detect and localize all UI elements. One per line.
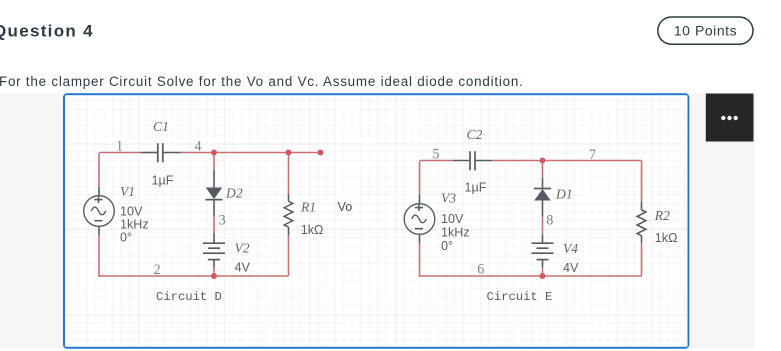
svg-text:D2: D2 — [225, 186, 243, 201]
svg-text:1µF: 1µF — [152, 173, 174, 187]
svg-text:D1: D1 — [555, 186, 573, 201]
svg-text:3: 3 — [219, 213, 226, 229]
svg-text:Circuit D: Circuit D — [156, 290, 222, 304]
svg-text:1µF: 1µF — [465, 181, 487, 195]
svg-text:V4: V4 — [563, 241, 578, 256]
svg-text:2: 2 — [154, 262, 161, 278]
svg-text:4V: 4V — [235, 261, 251, 275]
svg-text:1kHz: 1kHz — [120, 217, 149, 231]
svg-text:1kHz: 1kHz — [441, 226, 470, 240]
svg-text:10V: 10V — [441, 212, 464, 226]
svg-text:0°: 0° — [120, 230, 132, 244]
svg-text:R1: R1 — [300, 200, 316, 215]
svg-text:C1: C1 — [153, 119, 169, 134]
svg-text:1kΩ: 1kΩ — [655, 231, 678, 245]
svg-text:Question 4: Question 4 — [0, 21, 94, 40]
svg-text:Vo: Vo — [338, 200, 353, 214]
svg-text:5: 5 — [432, 146, 439, 162]
svg-text:V3: V3 — [441, 190, 456, 205]
svg-text:1kΩ: 1kΩ — [301, 223, 324, 237]
svg-text:For the clamper Circuit Solve: For the clamper Circuit Solve for the Vo… — [0, 74, 524, 89]
svg-text:4V: 4V — [563, 261, 579, 275]
svg-text:6: 6 — [477, 261, 484, 277]
svg-text:V1: V1 — [120, 184, 135, 199]
svg-text:1: 1 — [116, 139, 123, 155]
svg-text:7: 7 — [589, 147, 596, 163]
svg-text:10V: 10V — [120, 204, 143, 218]
svg-text:V2: V2 — [235, 241, 250, 256]
svg-text:8: 8 — [546, 213, 553, 229]
svg-text:4: 4 — [195, 139, 202, 155]
svg-text:C2: C2 — [467, 127, 483, 142]
svg-text:0°: 0° — [441, 239, 453, 253]
svg-text:Circuit E: Circuit E — [487, 290, 553, 304]
svg-text:10 Points: 10 Points — [674, 23, 737, 39]
svg-text:R2: R2 — [654, 208, 670, 223]
